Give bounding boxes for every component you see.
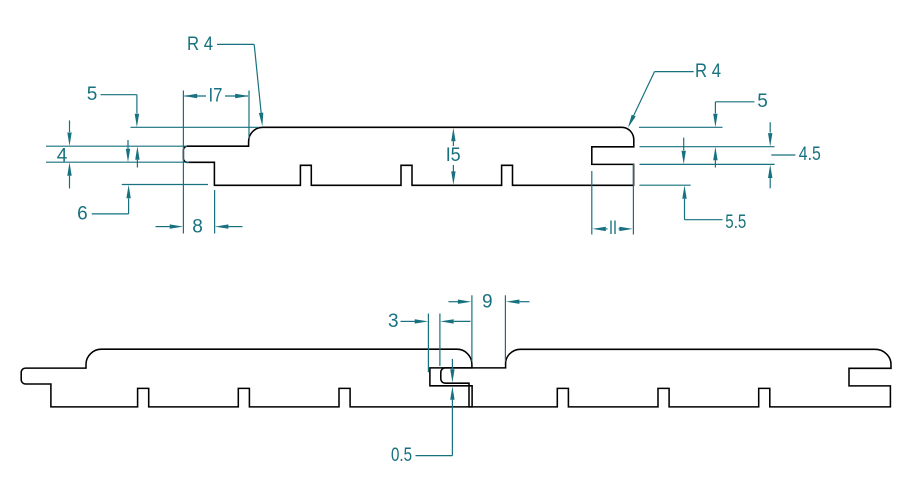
extension line bottom left <box>122 184 208 186</box>
extension line tongue tip (bottom drawing) <box>439 314 441 367</box>
radius callout R 4 (top left) <box>187 34 263 126</box>
board profile (top drawing, single board outline) <box>183 127 633 185</box>
extension line right board shoulder (bottom drawing) <box>504 295 506 361</box>
svg-text:R 4: R 4 <box>187 34 213 55</box>
dimension 5 (top left) <box>87 84 140 167</box>
dimension 9 (bottom drawing) <box>449 291 530 312</box>
extension line top right surface <box>639 126 723 128</box>
dimension 4 (left) <box>57 120 72 188</box>
svg-text:4.5: 4.5 <box>799 144 821 165</box>
svg-text:9: 9 <box>482 291 493 312</box>
extension line groove top lip right <box>640 146 775 148</box>
dimension 15 (middle) <box>446 128 461 185</box>
extension line groove back wall (bottom drawing) <box>427 314 429 373</box>
svg-text:5.5: 5.5 <box>725 212 746 233</box>
dimension 6 (lower left) <box>77 140 131 225</box>
dimension 17 (top) <box>183 86 249 234</box>
dimension 0.5 (bottom drawing) <box>391 359 455 466</box>
dimension 5 (top right) <box>713 91 768 167</box>
extension line tongue bottom left <box>46 161 189 163</box>
svg-text:R 4: R 4 <box>695 61 721 82</box>
dimension 5.5 (lower right) <box>682 138 747 234</box>
dimension 3 (bottom drawing) <box>388 311 470 332</box>
svg-text:8: 8 <box>192 217 203 238</box>
extension line tongue top left <box>46 145 187 147</box>
svg-text:6: 6 <box>77 204 88 225</box>
extension line bottom right <box>639 184 690 186</box>
svg-text:0.5: 0.5 <box>391 445 412 466</box>
svg-text:I7: I7 <box>209 86 223 107</box>
extension line groove bottom lip right <box>640 163 775 165</box>
bottom drawing: right board outline <box>441 349 891 407</box>
dimension 8 (lower left) <box>156 190 243 238</box>
svg-text:3: 3 <box>388 311 399 332</box>
bottom drawing: left board outline <box>21 349 472 407</box>
dimension 4.5 (right) <box>768 122 821 188</box>
svg-text:5: 5 <box>87 84 98 105</box>
svg-text:4: 4 <box>57 145 68 166</box>
svg-text:II: II <box>609 218 617 239</box>
svg-text:I5: I5 <box>446 145 461 166</box>
extension line left board edge (bottom drawing) <box>471 295 473 361</box>
extension line top-left surface <box>131 126 259 128</box>
svg-text:5: 5 <box>757 91 768 112</box>
radius callout R 4 (top right) <box>628 61 721 128</box>
dimension 11 (lower right) <box>592 164 634 239</box>
